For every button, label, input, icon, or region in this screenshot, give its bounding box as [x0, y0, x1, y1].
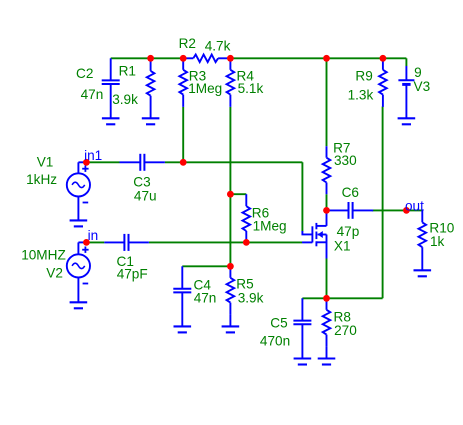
- svg-text:5.1k: 5.1k: [238, 81, 264, 96]
- svg-text:1kHz: 1kHz: [26, 172, 57, 187]
- svg-text:3.9k: 3.9k: [238, 291, 264, 306]
- svg-text:47pF: 47pF: [117, 267, 148, 282]
- svg-text:47p: 47p: [337, 224, 360, 239]
- svg-text:47n: 47n: [81, 87, 104, 102]
- svg-text:V3: V3: [414, 79, 431, 94]
- svg-text:330: 330: [334, 153, 357, 168]
- svg-text:3.9k: 3.9k: [112, 92, 138, 107]
- svg-text:X1: X1: [334, 238, 351, 253]
- svg-text:10MHZ: 10MHZ: [21, 247, 66, 262]
- svg-text:in: in: [88, 228, 99, 243]
- svg-text:R1: R1: [119, 64, 136, 79]
- svg-text:270: 270: [334, 323, 357, 338]
- svg-text:47u: 47u: [134, 189, 157, 204]
- svg-text:C2: C2: [76, 66, 93, 81]
- svg-text:4.7k: 4.7k: [205, 39, 231, 54]
- svg-text:470n: 470n: [260, 334, 290, 349]
- svg-text:R9: R9: [355, 68, 372, 83]
- svg-text:C3: C3: [133, 174, 150, 189]
- svg-text:1.3k: 1.3k: [348, 87, 374, 102]
- svg-text:1k: 1k: [430, 234, 445, 249]
- svg-text:V1: V1: [37, 155, 54, 170]
- svg-text:C5: C5: [270, 315, 287, 330]
- svg-text:1Meg: 1Meg: [188, 81, 222, 96]
- svg-text:R5: R5: [236, 277, 253, 292]
- svg-text:out: out: [405, 198, 424, 213]
- svg-text:C6: C6: [342, 185, 359, 200]
- svg-text:47n: 47n: [194, 291, 217, 306]
- svg-text:V2: V2: [46, 265, 63, 280]
- svg-text:in1: in1: [84, 148, 102, 163]
- svg-text:9: 9: [414, 65, 422, 80]
- svg-text:1Meg: 1Meg: [253, 219, 287, 234]
- svg-text:R2: R2: [179, 36, 196, 51]
